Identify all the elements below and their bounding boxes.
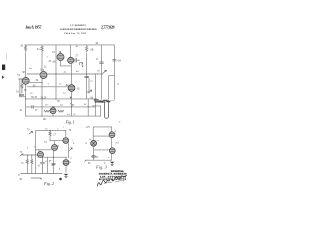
cap bump and triangle x79-84 (80, 63, 83, 65)
resistor right of V6 (58, 110, 64, 112)
input twin leads (20, 79, 22, 97)
junction dot (42,116.1) (41, 116, 42, 117)
cap on h106.9 (32, 105, 33, 108)
wire grid lead x70.3 (69, 45, 71, 57)
resistor R21 (41, 46, 43, 51)
tube V4 top lead (43, 70, 45, 72)
svg-text:Fig. 3: Fig. 3 (95, 164, 108, 169)
squiggle right of lamp (97, 139, 99, 141)
wire MR bottom lead (111, 154, 113, 161)
resistor left of V6 (44, 110, 50, 112)
wire lamp rail lower (93, 146, 95, 160)
cap bars on x86.6 (85, 76, 89, 77)
fig2 junction dot (65.8,130.6) (65, 130, 66, 131)
small arrow near x90 y90 (89, 90, 92, 93)
signature cursive (98, 176, 127, 187)
input top bar (18, 78, 23, 80)
wire h157.2 (38, 156, 66, 158)
wire rail x42 (41, 52, 43, 117)
resistor R77 (49, 131, 51, 137)
fig2 ground (64, 174, 69, 176)
wire left rail (25, 53, 27, 116)
wire h65.9 (61, 65, 71, 67)
wire v x101.5 (101, 45, 103, 100)
capacitor C29 on right rail (113, 59, 117, 61)
wire rail x56 (55, 45, 57, 99)
tube V2 (68, 57, 74, 63)
wire R77 to h140.7 (49, 137, 51, 141)
wire h74 (27, 73, 102, 75)
junction dot (42,82.7) (41, 82, 42, 83)
input resistor (21, 84, 23, 89)
wire tube C bottom lead (65, 165, 67, 172)
wire R21 top lead (41, 45, 43, 46)
input lead lower (21, 89, 23, 94)
wire h149.8 (36, 149, 52, 151)
fig3 ground (110, 162, 115, 164)
tube V3 (22, 77, 29, 84)
wire fig2 bottom bus (21, 173, 62, 175)
wire h82.7 (28, 82, 42, 84)
resistor fig2 a (26, 160, 28, 165)
battery fig3 (91, 155, 96, 157)
wire v95.4 (94, 74, 96, 116)
svg-text:LIGHT SOURCE FOR FIDELITY AMPL: LIGHT SOURCE FOR FIDELITY AMPLIFIER (60, 28, 97, 31)
wire tube V1 bottom lead (60, 61, 62, 66)
wire rail x86.6 (86, 54, 88, 99)
wire fig3 bottom h (86, 159, 112, 161)
transformer U loop (105, 102, 109, 118)
wire bottom bus fig1 (26, 115, 101, 117)
fig2 junction dot (66,157.2) (66, 157, 67, 158)
wire v27.3 (26, 155, 28, 160)
fig2 junction dot (42.5,157.2) (42, 157, 43, 158)
wire h86.8 (27, 86, 68, 88)
wire tube C top lead (65, 157, 67, 159)
wire h149.9 (94, 149, 110, 151)
tube B (63, 138, 69, 144)
label 59b squiggle (111, 99, 115, 101)
tube V6 (50, 108, 56, 114)
wire v53.5 lower (53, 157, 55, 173)
junction dot (71.5,106.9) (71, 106, 72, 107)
svg-text:J. F. ROBERTS: J. F. ROBERTS (70, 24, 87, 27)
tube V1 (57, 54, 64, 61)
wire v x88.2 (87, 99, 89, 116)
cap on v53.5 (52, 163, 56, 164)
transformer label row (94, 100, 110, 102)
corner cap lead (50, 160, 52, 163)
tube C (63, 160, 69, 166)
wire h136.1 (93, 135, 109, 137)
tube MR (109, 148, 115, 154)
fig2 junction dot (35.7,149.8) (35, 149, 36, 150)
wire T1 bottom lead (53, 151, 55, 158)
wire v x68.4 pot (67, 144, 69, 159)
transformer rect left (92, 106, 100, 116)
wire fig3 top h (93, 126, 112, 128)
junction dot (88.2,106.9) (88, 106, 89, 107)
svg-text:36·35: 36·35 (31, 96, 38, 99)
wire h178 stub (31, 178, 41, 179)
svg-text:Jan. 8, 1957: Jan. 8, 1957 (25, 25, 42, 30)
wire rail x71.5 lower (71, 63, 73, 116)
tube T1 (52, 145, 58, 151)
wire T1 top lead (54, 141, 56, 145)
capacitor on x101.5 (100, 62, 104, 64)
tube V6 bottom lead (52, 114, 54, 116)
input arrow 2 (20, 154, 23, 156)
fig2 junction dot (31.8,155) (31, 155, 32, 156)
wire h140.7 (50, 140, 63, 142)
wire h98.9 (26, 98, 97, 100)
wire v47.5 (47, 157, 49, 173)
svg-text:-29: -29 (117, 59, 121, 62)
tube T2 (38, 152, 44, 158)
capacitor C27 (74, 58, 80, 62)
label 87 (87, 126, 90, 129)
margin artifact blob 2 (2, 76, 4, 79)
svg-text:53,54: 53,54 (41, 96, 48, 99)
pot arrow down on h98.9 (70, 97, 72, 99)
tube TR (109, 132, 115, 138)
tube V4 (40, 72, 47, 79)
svg-text:2,777,020: 2,777,020 (101, 25, 115, 30)
wire between tubes (111, 138, 113, 148)
wire v31.8 (31, 155, 33, 160)
pot arrow on x101.5 (103, 70, 107, 73)
small loop x86.6-89 (87, 79, 89, 93)
wire v108.7 (108, 76, 110, 100)
fig2 junction dot (50,130.6) (50, 130, 51, 131)
svg-text:21-: 21- (37, 48, 41, 51)
svg-text:-28: -28 (90, 48, 94, 51)
wire stub y75.7 (109, 75, 115, 77)
wire right rail (113, 45, 115, 100)
resistor R20 (24, 45, 26, 52)
wire fig3 left rail (92, 127, 94, 141)
tube V5 (68, 85, 75, 92)
cap fig2 (41, 157, 45, 173)
resistor R28 (86, 45, 88, 52)
input arrow 1 (29, 131, 33, 134)
wire h155 (23, 154, 38, 156)
wire fig2 left rail (35, 131, 37, 174)
junction dot (56,98.9) (55, 98, 56, 99)
wire h96.8 (20, 96, 26, 98)
wire fig2 top h (36, 130, 65, 132)
resistor fig2 b (31, 160, 33, 165)
wire tube B top lead (65, 131, 67, 138)
junction dot (86.6,74) (86, 73, 87, 74)
svg-text:Fig. 2: Fig. 2 (43, 181, 55, 186)
margin faint line (6, 53, 8, 60)
junction dot (25.6,98.9) (25, 98, 26, 99)
margin artifact blob (2, 65, 5, 71)
svg-text:Filed Jan. 15, 1953: Filed Jan. 15, 1953 (64, 32, 87, 35)
wire h106.9 (26, 106, 96, 108)
junction dot (56,74) (55, 73, 56, 74)
tick above lamp (89, 138, 91, 140)
wire top bus (25, 44, 115, 46)
tube V1 top lead (60, 51, 62, 53)
fig2 junction dot (27.3,155) (27, 155, 28, 156)
svg-text:Fig. 1: Fig. 1 (65, 120, 75, 125)
input caps (19, 94, 24, 95)
pot arrow fig2 (69, 148, 72, 151)
fig2 junction dot (53.5,157.2) (53, 157, 54, 158)
lamp (91, 140, 97, 146)
dark blot (59, 178, 62, 181)
junction dot (108, 100, 110, 102)
wire TR top lead (111, 127, 113, 132)
bottom left terminal (85, 160, 87, 162)
